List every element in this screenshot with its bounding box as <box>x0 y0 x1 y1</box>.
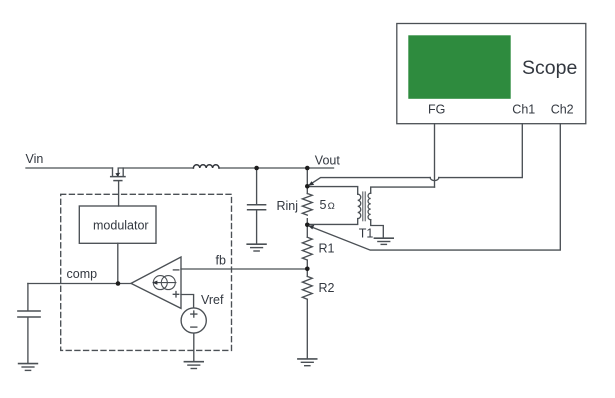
svg-text:5Ω: 5Ω <box>320 198 335 212</box>
svg-text:R1: R1 <box>319 242 335 256</box>
svg-text:Vin: Vin <box>26 152 44 166</box>
svg-text:T1: T1 <box>359 227 374 241</box>
svg-text:fb: fb <box>216 254 226 268</box>
svg-text:comp: comp <box>67 267 98 281</box>
svg-text:Ch2: Ch2 <box>551 103 574 117</box>
svg-text:Ch1: Ch1 <box>512 103 535 117</box>
svg-text:Vout: Vout <box>315 154 341 168</box>
svg-text:FG: FG <box>428 103 445 117</box>
svg-text:Vref: Vref <box>201 293 224 307</box>
svg-text:modulator: modulator <box>93 219 149 233</box>
svg-text:R2: R2 <box>319 281 335 295</box>
svg-text:Scope: Scope <box>522 57 577 79</box>
svg-text:Rinj: Rinj <box>277 199 299 213</box>
